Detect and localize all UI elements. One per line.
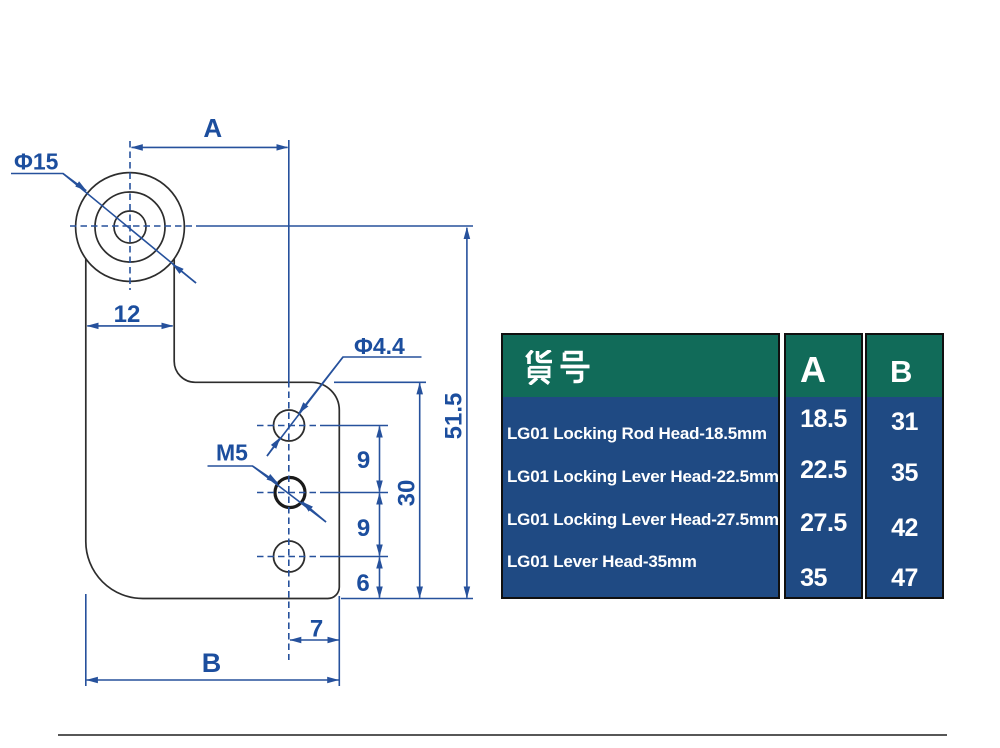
svg-text:30: 30 xyxy=(394,480,421,507)
svg-text:6: 6 xyxy=(356,570,369,597)
svg-text:12: 12 xyxy=(114,301,141,328)
svg-text:7: 7 xyxy=(310,616,323,643)
svg-text:Φ4.4: Φ4.4 xyxy=(354,333,405,359)
svg-text:B: B xyxy=(202,648,222,678)
svg-text:9: 9 xyxy=(357,447,370,474)
svg-text:Φ15: Φ15 xyxy=(14,149,59,175)
svg-text:51.5: 51.5 xyxy=(441,393,468,440)
svg-text:9: 9 xyxy=(357,515,370,542)
svg-text:M5: M5 xyxy=(216,440,248,466)
svg-text:A: A xyxy=(203,113,222,143)
